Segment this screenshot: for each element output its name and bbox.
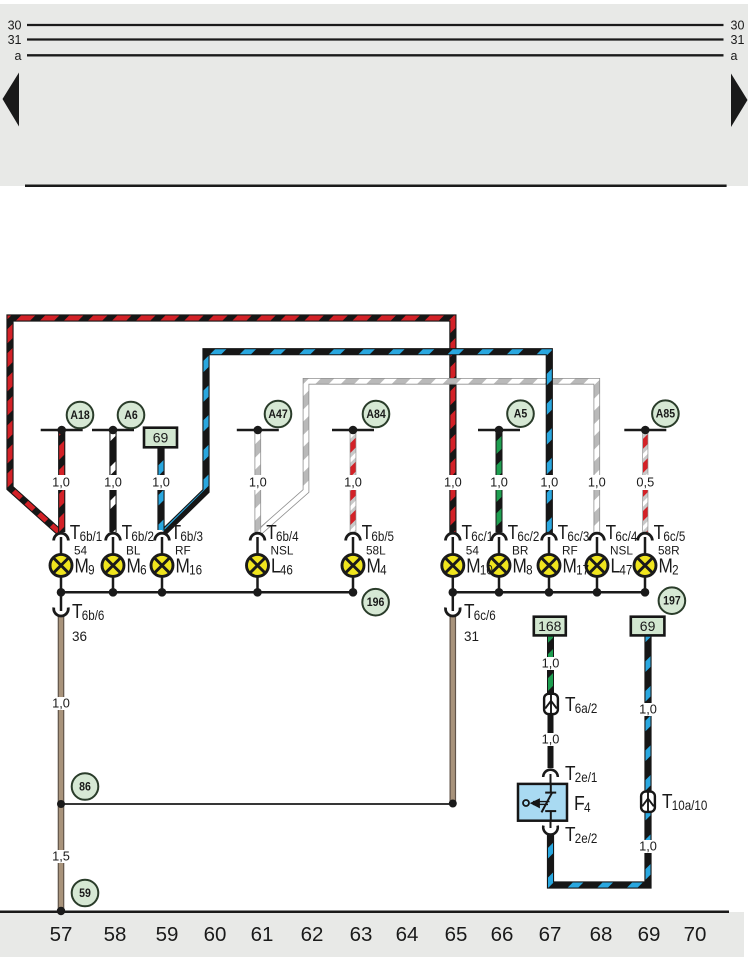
wire red/black stub A18 bar to T6b/1 <box>58 430 65 532</box>
connector arcs top row (open bottom) <box>54 533 653 616</box>
svg-text:64: 64 <box>396 923 419 946</box>
connector T6c/6 (open top) <box>446 608 461 617</box>
node 86 <box>72 773 99 800</box>
terminal bar A18 <box>41 429 83 432</box>
wire stub lamp L46 <box>256 537 259 555</box>
svg-text:1,0: 1,0 <box>540 475 558 490</box>
svg-text:63: 63 <box>350 923 373 946</box>
svg-text:1,0: 1,0 <box>490 475 508 490</box>
node 196 <box>362 589 389 616</box>
ground stubs below bus <box>60 592 63 611</box>
wire stub lamp M2 <box>644 537 647 555</box>
connector T6b/3 <box>155 533 170 540</box>
svg-text:58: 58 <box>104 923 127 946</box>
top band bottom separator <box>25 185 727 188</box>
svg-text:68: 68 <box>590 923 613 946</box>
svg-text:1,0: 1,0 <box>152 475 170 490</box>
wire blue/black T6b/3 to T6c/3 long run <box>164 352 549 533</box>
bottom coordinate band <box>0 912 744 957</box>
svg-text:197: 197 <box>663 595 681 608</box>
lamp M4 <box>342 554 364 576</box>
svg-text:A85: A85 <box>656 408 675 421</box>
switch internals <box>550 784 552 793</box>
connector T6c/2 <box>492 533 507 540</box>
svg-text:86: 86 <box>79 781 91 794</box>
lamp M6 <box>102 554 124 576</box>
wire stub lamp M8 <box>498 537 501 555</box>
node 197 <box>659 587 686 614</box>
terminal bar A5 <box>478 429 520 432</box>
svg-text:65: 65 <box>445 923 468 946</box>
node 59 <box>72 880 99 907</box>
svg-text:59: 59 <box>79 887 91 900</box>
lamp M9 <box>50 554 72 576</box>
rail 31 <box>27 38 724 40</box>
svg-text:168: 168 <box>538 618 562 634</box>
wire red/black T6b/1 to T6c/1 long run <box>10 318 453 533</box>
svg-text:36: 36 <box>72 629 87 644</box>
svg-text:31: 31 <box>8 33 22 47</box>
wire green/black 168-box to T6a/2 <box>547 635 554 700</box>
connector T2e/1 arc (open bottom) <box>543 770 558 777</box>
wire stub lamp L47 <box>596 537 599 555</box>
top rail band <box>0 4 748 186</box>
green reference circles <box>67 400 686 906</box>
bottom band top separator <box>0 911 729 914</box>
svg-text:30: 30 <box>731 19 745 33</box>
stub into F4 <box>550 774 552 784</box>
left page arrow <box>3 73 20 127</box>
connector T6c/5 <box>638 533 653 540</box>
connector T6b/1 <box>54 533 69 540</box>
node A84 <box>363 401 390 428</box>
connector T6b/2 <box>106 533 121 540</box>
svg-text:70: 70 <box>684 923 707 946</box>
wire black/white stub A6 bar to T6b/2 <box>109 430 116 532</box>
rail a <box>27 54 724 56</box>
lamp M2 <box>634 554 656 576</box>
lamp stubs and lamps <box>61 537 645 592</box>
terminal bar A84 <box>332 429 374 432</box>
wire black/blue stub 69-box to T6b/3 <box>157 448 164 531</box>
terminal bar A47 <box>237 429 279 432</box>
svg-text:1,0: 1,0 <box>542 656 560 671</box>
connector T6a/2 pill <box>544 694 558 714</box>
svg-text:69: 69 <box>153 430 169 446</box>
wire brown T6c/6 down to node 86 line <box>449 616 456 804</box>
node A47 <box>265 401 292 428</box>
node A6 <box>118 402 145 429</box>
right page arrow <box>731 74 748 128</box>
connector T6b/4 <box>250 533 265 540</box>
rail 30 <box>27 24 724 26</box>
svg-text:1,0: 1,0 <box>52 475 70 490</box>
svg-text:A84: A84 <box>366 408 386 421</box>
terminal bar A6 <box>92 429 134 432</box>
white gaps for wire size labels <box>50 475 659 863</box>
wire stub lamp M6 <box>112 537 115 555</box>
svg-text:1,0: 1,0 <box>639 839 657 854</box>
lamp labels <box>75 554 679 578</box>
svg-text:69: 69 <box>640 618 656 634</box>
wire black/blue T2e/2 to T10a/10 runner <box>551 635 649 885</box>
wire stub lamp M16 <box>161 537 164 555</box>
wire size labels row 1 <box>52 475 657 864</box>
node A18 <box>67 402 94 429</box>
lamp M10 <box>442 554 464 576</box>
wire brown T6b/6 down to ground rail 57 <box>58 616 65 912</box>
terminal bar A85 <box>624 429 666 432</box>
wire stub lamp M4 <box>352 537 355 555</box>
svg-text:61: 61 <box>251 923 274 946</box>
svg-text:67: 67 <box>539 923 562 946</box>
wire green/black stub A5 bar to T6c/2 <box>496 430 503 532</box>
lamp M16 <box>151 554 173 576</box>
wire stub lamp M9 <box>60 537 63 555</box>
junction dot ground rail 57 <box>57 907 65 915</box>
svg-text:196: 196 <box>367 597 385 610</box>
svg-text:69: 69 <box>638 923 661 946</box>
connector T6c/3 <box>542 533 557 540</box>
svg-text:1,0: 1,0 <box>344 475 362 490</box>
svg-text:66: 66 <box>491 923 514 946</box>
svg-text:1,0: 1,0 <box>542 732 560 747</box>
svg-text:1,0: 1,0 <box>249 475 267 490</box>
wire stub lamp M17 <box>548 537 551 555</box>
connector T6c/1 <box>446 533 461 540</box>
svg-text:1,5: 1,5 <box>52 849 70 864</box>
svg-text:a: a <box>15 49 22 63</box>
wire white/gray T6b/4 to T6c/4 long run <box>260 381 597 533</box>
lamps (bulb symbols) <box>50 554 656 576</box>
node A85 <box>652 400 679 427</box>
wire white/red stub A85 bar to T6c/5 <box>642 430 648 532</box>
svg-text:30: 30 <box>8 19 22 33</box>
thin interconnect line node 86 <box>61 803 453 805</box>
svg-text:57: 57 <box>50 923 73 946</box>
svg-text:a: a <box>731 49 738 63</box>
bus line right lamp group <box>453 591 645 594</box>
lamp M17 <box>538 554 560 576</box>
box 69 (right runner) <box>631 617 665 636</box>
connector T2e/2 arc (open top) <box>543 826 558 835</box>
svg-text:0,5: 0,5 <box>636 475 654 490</box>
wire white/red stub A84 bar to T6b/5 <box>350 430 357 532</box>
wire black T6a/2 to T2e/1 <box>548 710 554 768</box>
svg-text:1,0: 1,0 <box>104 475 122 490</box>
svg-text:A47: A47 <box>268 408 287 421</box>
connector T6c/4 <box>590 533 605 540</box>
lamp L46 <box>247 554 269 576</box>
bus junction dots <box>57 588 650 597</box>
svg-text:59: 59 <box>156 923 179 946</box>
svg-text:1,0: 1,0 <box>52 696 70 711</box>
svg-text:1,0: 1,0 <box>639 702 657 717</box>
box 69 (top, to T6b/3) <box>144 428 177 448</box>
svg-text:A5: A5 <box>514 408 528 421</box>
wire stub lamp M10 <box>452 537 455 555</box>
svg-text:A18: A18 <box>70 409 89 422</box>
terminal bars with junction dots <box>41 429 667 432</box>
lamp L47 <box>586 554 608 576</box>
svg-text:62: 62 <box>301 923 324 946</box>
grid numbers 57-70 <box>50 923 707 946</box>
junction dot node 86 <box>57 800 65 808</box>
node A5 <box>507 400 534 427</box>
connector T6b/5 <box>346 533 361 540</box>
connector T10a/10 pill <box>641 792 655 812</box>
stub out of F4 <box>550 821 552 828</box>
terminal designation labels <box>74 544 680 558</box>
component labels right column <box>565 693 707 847</box>
svg-text:31: 31 <box>731 33 745 47</box>
svg-text:31: 31 <box>464 629 479 644</box>
svg-text:60: 60 <box>204 923 227 946</box>
wire white/gray stub A47 bar to T6b/4 <box>254 430 261 532</box>
svg-text:A6: A6 <box>124 409 138 422</box>
connector labels top row <box>70 521 686 624</box>
lamp M8 <box>488 554 510 576</box>
box 168 <box>534 617 566 636</box>
junction dot T6c/6 wire end <box>449 800 457 808</box>
svg-text:1,0: 1,0 <box>588 475 606 490</box>
bus line left lamp group <box>61 591 353 594</box>
connector T6b/6 (open top) <box>54 608 69 617</box>
switch F4 box <box>518 784 567 821</box>
svg-text:1,0: 1,0 <box>444 475 462 490</box>
